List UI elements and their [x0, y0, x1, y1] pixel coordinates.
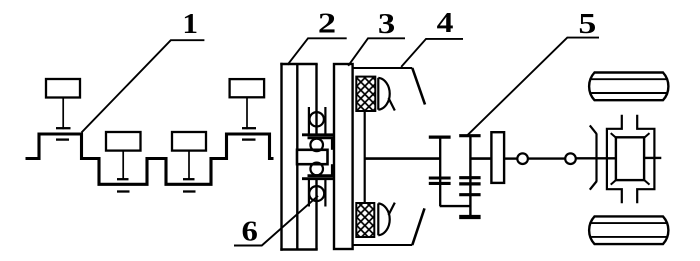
gear V2 bottom cap	[459, 215, 480, 219]
clutch spring circle lower	[309, 186, 324, 201]
differential carrier outline	[607, 115, 655, 203]
pressure bar upper 2	[308, 136, 334, 139]
gearbox output shaft	[470, 157, 491, 160]
output coupling rect	[491, 132, 504, 183]
bevel whisker top	[590, 125, 597, 134]
clutch hub 6	[297, 150, 328, 164]
rod end tick 1	[56, 127, 71, 129]
connecting rod 4	[246, 97, 248, 129]
leader line 5	[467, 38, 599, 136]
crank pin tick 4	[242, 138, 256, 140]
pressure bar lower L	[331, 164, 333, 176]
differential case inner rect	[616, 137, 644, 180]
countershaft	[440, 205, 471, 207]
pressure bar lower 2	[308, 174, 334, 177]
flywheel 2 right edge lower (spring shaft)	[315, 179, 317, 250]
flywheel 2 divider lower	[296, 164, 298, 249]
gear shaft V2	[469, 136, 471, 217]
connecting rod 3	[188, 151, 190, 180]
universal joint 2	[565, 153, 576, 164]
wheel top tread line b	[591, 92, 666, 94]
leader line 1	[82, 40, 205, 132]
diff whisker TR	[643, 133, 649, 138]
wheel bottom tread line a	[591, 222, 666, 224]
damper circle lower	[310, 163, 323, 176]
flywheel 2 top edge	[280, 63, 317, 65]
svg-text:6: 6	[242, 216, 258, 248]
crank pin tick 1	[56, 138, 69, 140]
gear V1 mesh cap a	[429, 176, 451, 179]
pressure bar upper L	[331, 138, 333, 150]
pressure bar lower 1	[302, 177, 334, 180]
release fork lower (D shape)	[377, 203, 379, 235]
bevel whisker bottom	[590, 181, 597, 190]
svg-text:5: 5	[578, 8, 596, 40]
wheel bottom	[589, 216, 668, 244]
gear shaft V1	[439, 137, 441, 206]
pressure bar upper 1	[302, 133, 334, 136]
crank pin tick 3	[183, 190, 196, 192]
propeller shaft c	[576, 157, 616, 159]
gearbox input shaft	[365, 157, 441, 160]
gear V1 top cap	[429, 136, 451, 139]
svg-text:1: 1	[182, 8, 198, 39]
spring bracket lower right	[324, 180, 326, 207]
gear V1 mesh cap b	[429, 182, 451, 185]
piston P4	[230, 79, 265, 97]
clutch cover top	[353, 67, 413, 69]
release fork upper tail	[389, 98, 395, 111]
propeller shaft a	[504, 157, 517, 159]
friction lining lower (hatched)	[356, 203, 374, 237]
final drive bevel gear	[595, 134, 597, 181]
leader line 4	[401, 39, 463, 67]
crank pin tick 2	[117, 190, 130, 192]
flywheel 2 right edge upper (spring shaft)	[315, 64, 317, 135]
svg-text:4: 4	[437, 7, 454, 39]
wheel top tread line a	[591, 78, 666, 80]
connecting rod 1	[62, 98, 64, 130]
leader line 3	[348, 38, 405, 66]
rod end tick 4	[242, 127, 256, 129]
gear V2 mesh cap a	[459, 176, 480, 179]
spring bracket upper right	[324, 107, 326, 134]
spring bracket lower left	[308, 180, 310, 207]
diff whisker BL	[611, 179, 617, 184]
rod end tick 3	[183, 178, 195, 180]
diff whisker BR	[643, 179, 649, 184]
piston P3	[172, 132, 206, 151]
right axle	[644, 157, 661, 159]
spring bracket upper left	[308, 107, 310, 134]
leader line 6	[234, 196, 318, 246]
propeller shaft b	[528, 157, 565, 159]
diff whisker TL	[611, 133, 617, 138]
wheel bottom tread line b	[591, 236, 666, 238]
clutch release lever top	[412, 68, 425, 105]
piston P2	[106, 132, 141, 151]
gear V2 mesh cap b	[459, 182, 480, 185]
svg-text:3: 3	[378, 8, 395, 39]
gear V2 top cap	[459, 134, 480, 137]
connecting rod 2	[122, 151, 124, 180]
clutch spring circle upper	[310, 112, 324, 126]
release fork lower tail	[389, 203, 395, 215]
friction lining upper (hatched)	[356, 77, 375, 111]
svg-text:2: 2	[318, 8, 336, 39]
flywheel 2 divider upper	[296, 64, 298, 150]
piston P1	[46, 79, 80, 98]
release fork upper (D shape)	[377, 78, 379, 110]
gear V2 mesh cap c	[459, 193, 480, 196]
pressure plate 3	[334, 64, 353, 249]
clutch release lever bottom	[412, 208, 424, 245]
clutch cover bottom	[353, 244, 413, 246]
flywheel 2 bottom edge	[280, 248, 317, 250]
flywheel 2 left edge	[280, 63, 282, 251]
wheel top	[589, 73, 668, 101]
leader line 2	[288, 38, 347, 65]
universal joint 1	[517, 153, 528, 164]
rod end tick 2	[117, 178, 129, 180]
release bearing link	[364, 111, 366, 203]
damper circle upper	[310, 139, 323, 152]
crankshaft 1	[26, 134, 274, 184]
